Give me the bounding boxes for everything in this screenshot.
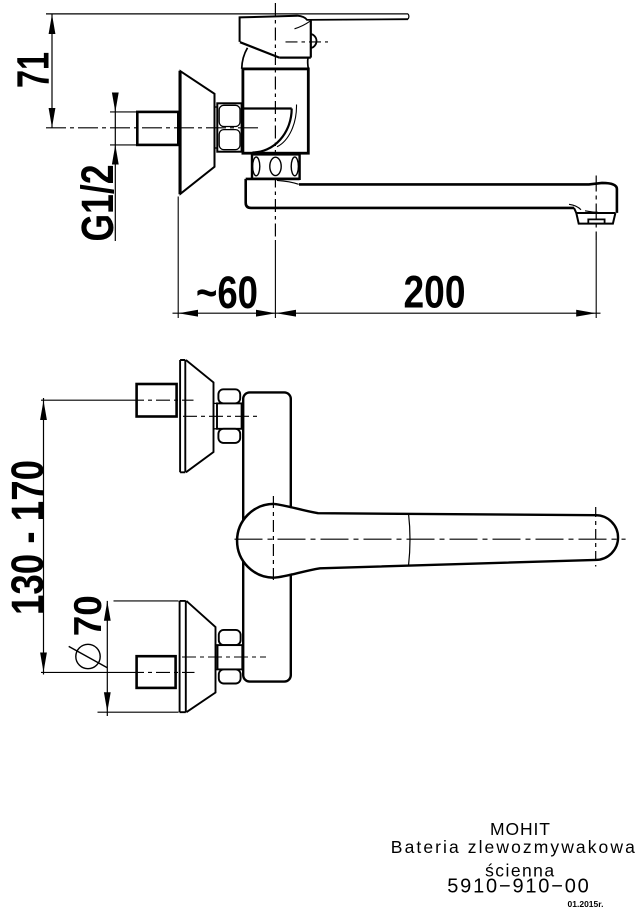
body centerline extension bbox=[274, 240, 276, 318]
escutcheon wall flange edge (side view) bbox=[179, 71, 182, 194]
nut lower face bbox=[219, 130, 240, 150]
spout elbow left/bottom outline bbox=[246, 179, 574, 208]
wall bar body (front view) bbox=[243, 392, 291, 681]
elbow-arm fillet bbox=[277, 180, 299, 184]
diameter symbol circle bbox=[76, 644, 100, 668]
svg-text:200: 200 bbox=[404, 267, 466, 318]
dimension 200 arrow left bbox=[276, 310, 296, 317]
upper nut axis centerline bbox=[183, 415, 258, 417]
G1/2 extension line bottom bbox=[110, 144, 138, 146]
upper nut tick top bbox=[214, 402, 218, 404]
dimension ~60 line bbox=[173, 312, 277, 314]
lower inlet axis centerline bbox=[130, 671, 195, 673]
G1/2 arrow down (above pipe) bbox=[112, 93, 119, 113]
upper inlet axis centerline bbox=[130, 399, 194, 401]
dimension 71 arrow down bbox=[49, 108, 56, 128]
upper nut middle face bbox=[217, 403, 242, 428]
dimension 200 line bbox=[276, 312, 601, 314]
escutcheon cone (side view) bbox=[181, 71, 215, 193]
handle bottom edge bbox=[279, 56, 311, 58]
body inner waterway arc thin bbox=[277, 105, 297, 147]
spout joint line (front view) bbox=[409, 513, 411, 566]
upper inlet axis extension (130-170) bbox=[41, 399, 130, 401]
ring oval left bbox=[253, 157, 260, 176]
aerator housing bbox=[574, 208, 615, 224]
nut tick bottom (side view) bbox=[215, 147, 218, 149]
ball vertical centerline bbox=[272, 496, 274, 584]
dia70 extension top bbox=[114, 600, 179, 602]
dia70 arrow up bbox=[104, 601, 111, 621]
body joint line bbox=[243, 107, 292, 109]
upper nut top cap bbox=[218, 389, 240, 403]
nut upper face bbox=[219, 105, 240, 126]
outlet extension line bbox=[595, 240, 597, 318]
dimension ~60 arrow left bbox=[178, 310, 198, 317]
spout arm white cover (front view) bbox=[276, 505, 616, 576]
body inner waterway arc thick bbox=[253, 109, 292, 153]
mixer ball outline (front view) bbox=[237, 504, 274, 578]
upper escutcheon flange (front view) bbox=[180, 360, 185, 472]
wall plane extension line bbox=[177, 197, 179, 319]
G1/2 arrow up (below pipe) bbox=[112, 145, 119, 165]
aerator fillet left bbox=[569, 204, 581, 210]
G1/2 extension line top bbox=[110, 111, 138, 113]
wall axis centerline (side view) bbox=[46, 127, 258, 129]
extension line top of lever (71 dim) / lever blade top edge bbox=[46, 13, 408, 15]
G1/2 dimension line bbox=[114, 94, 116, 242]
diameter symbol slash bbox=[69, 646, 108, 667]
spout arm top edge (side view) bbox=[299, 183, 617, 213]
lower wall nipple (front view) bbox=[137, 656, 176, 688]
aerator insert bbox=[588, 219, 604, 223]
svg-text:~60: ~60 bbox=[196, 267, 258, 318]
ring oval right bbox=[291, 157, 298, 176]
dimension 200 arrow right bbox=[576, 310, 596, 317]
lower nut bottom cap bbox=[219, 669, 241, 683]
lower nut tick bottom bbox=[216, 668, 218, 670]
dimension 71 line bbox=[51, 15, 53, 128]
ring oval center bbox=[270, 157, 281, 175]
svg-text:Bateria zlewozmywakowa: Bateria zlewozmywakowa bbox=[391, 837, 635, 857]
mixer ball interior (front view) bbox=[238, 505, 309, 576]
dimension 130-170 line bbox=[43, 398, 45, 675]
dia70 arrow down bbox=[104, 692, 111, 712]
dimension 71 arrow up bbox=[49, 14, 56, 34]
lower inlet axis extension (130-170) bbox=[41, 671, 130, 673]
lower nut tick top bbox=[216, 644, 218, 646]
neck right arc bbox=[307, 58, 310, 69]
dimension ~60 arrow right bbox=[256, 310, 276, 317]
dimension 130-170 arrow up bbox=[40, 401, 47, 421]
upper nut bottom cap bbox=[218, 429, 240, 443]
dia70 extension bottom bbox=[98, 711, 179, 713]
handle right edge bbox=[310, 20, 312, 58]
svg-text:70: 70 bbox=[67, 595, 110, 636]
dia70 dimension line bbox=[106, 601, 108, 716]
upper nut tick bottom bbox=[214, 428, 218, 430]
svg-text:G1/2: G1/2 bbox=[72, 165, 123, 242]
lower escutcheon cone (front view) bbox=[186, 601, 215, 712]
body vertical centerline bbox=[274, 3, 276, 240]
connection nut (side view) bbox=[217, 103, 241, 151]
handle pivot boss arc bbox=[311, 34, 317, 48]
handle inner fillet bbox=[295, 21, 311, 29]
upper escutcheon cone (front view) bbox=[186, 360, 214, 472]
spout arm outline (front view) bbox=[274, 504, 618, 578]
lower nut top cap bbox=[219, 630, 241, 645]
wall pipe nipple (side view) bbox=[137, 112, 178, 145]
spout elbow top edge bbox=[246, 178, 300, 181]
faucet body (side view) bbox=[243, 69, 308, 153]
svg-text:130 - 170: 130 - 170 bbox=[2, 460, 53, 615]
spout axis centerline (front view) bbox=[235, 538, 626, 540]
outlet centerline bbox=[595, 176, 597, 241]
svg-text:01.2015r.: 01.2015r. bbox=[568, 899, 604, 909]
handle blade tip cap bbox=[407, 14, 410, 19]
handle slant edge bbox=[240, 42, 279, 57]
nut tick top (side view) bbox=[215, 106, 218, 108]
aerator ring (side view) bbox=[252, 154, 300, 178]
handle pivot centerline bbox=[286, 41, 329, 43]
lower nut axis centerline bbox=[182, 656, 266, 658]
lower escutcheon flange (front view) bbox=[180, 601, 186, 712]
dimension 130-170 arrow down bbox=[40, 653, 47, 673]
handle left edge bbox=[240, 16, 298, 42]
aerator fillet right bbox=[585, 211, 598, 213]
svg-text:5910−910−00: 5910−910−00 bbox=[447, 876, 589, 898]
lower nut middle face bbox=[218, 645, 243, 669]
svg-text:71: 71 bbox=[8, 52, 59, 88]
handle blade bottom edge bbox=[298, 16, 409, 20]
upper wall nipple (front view) bbox=[137, 384, 177, 417]
neck left arc bbox=[242, 48, 248, 69]
outlet tip centerline (front view) bbox=[595, 507, 597, 567]
